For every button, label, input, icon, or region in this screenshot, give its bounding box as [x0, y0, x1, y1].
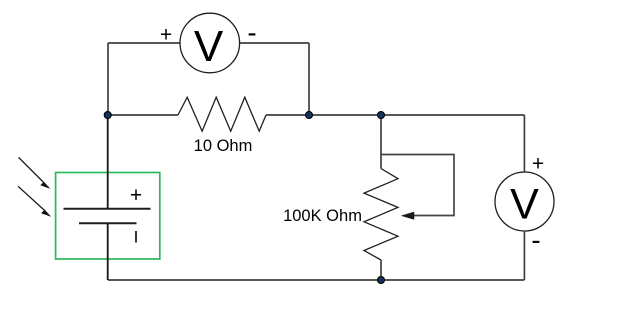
svg-text:10 Ohm: 10 Ohm	[194, 137, 253, 155]
light arrow 1	[19, 157, 44, 182]
svg-text:-: -	[247, 17, 256, 48]
svg-text:100K Ohm: 100K Ohm	[283, 207, 362, 225]
wire battery negative plate to bottom rail	[107, 223, 109, 280]
wire top-right vertical down to node B	[308, 43, 310, 115]
wire node A down to battery positive plate	[107, 115, 109, 209]
solar cell highlight box (green)	[56, 173, 160, 260]
node C junction dot	[378, 112, 385, 119]
light arrow 2	[18, 186, 44, 210]
wiper arrowhead	[402, 212, 415, 219]
wire node A to resistor R1	[108, 114, 178, 116]
battery BT1 negative plate (short)	[79, 222, 137, 224]
svg-text:-: -	[531, 225, 540, 256]
wire right vertical down to voltmeter V2	[523, 115, 525, 172]
wire resistor R1 to node B	[266, 114, 309, 116]
svg-text:+: +	[532, 153, 544, 176]
resistor R1 zigzag 10 Ohm	[178, 97, 266, 131]
wiper wire of potentiometer R2	[381, 155, 454, 216]
potentiometer R2 zigzag 100K Ohm	[364, 169, 398, 261]
wire top rail left (to voltmeter + terminal)	[108, 42, 181, 44]
wire node B to node C	[309, 114, 381, 116]
svg-text:+: +	[130, 184, 142, 207]
svg-text:V: V	[510, 181, 539, 229]
svg-text:V: V	[194, 22, 224, 71]
wire node C to voltmeter V2 top	[381, 114, 524, 116]
node A junction dot	[104, 112, 111, 119]
label - (battery negative, rotated bar)	[135, 231, 137, 243]
potentiometer R2 bottom lead	[380, 260, 382, 280]
potentiometer R2 top lead	[380, 115, 382, 169]
battery BT1 positive plate (long)	[64, 208, 151, 210]
wire bottom rail	[108, 279, 524, 281]
svg-text:+: +	[160, 24, 172, 47]
wire top rail right (voltmeter - terminal to corner)	[239, 42, 309, 44]
voltmeter V1 body	[180, 13, 240, 73]
voltmeter V2 body	[495, 172, 554, 231]
node D junction dot (bottom of potentiometer)	[378, 277, 385, 284]
wire top-left vertical (node A to top rail)	[107, 43, 109, 115]
node B junction dot	[306, 112, 313, 119]
wire voltmeter V2 bottom to bottom rail	[523, 231, 525, 280]
